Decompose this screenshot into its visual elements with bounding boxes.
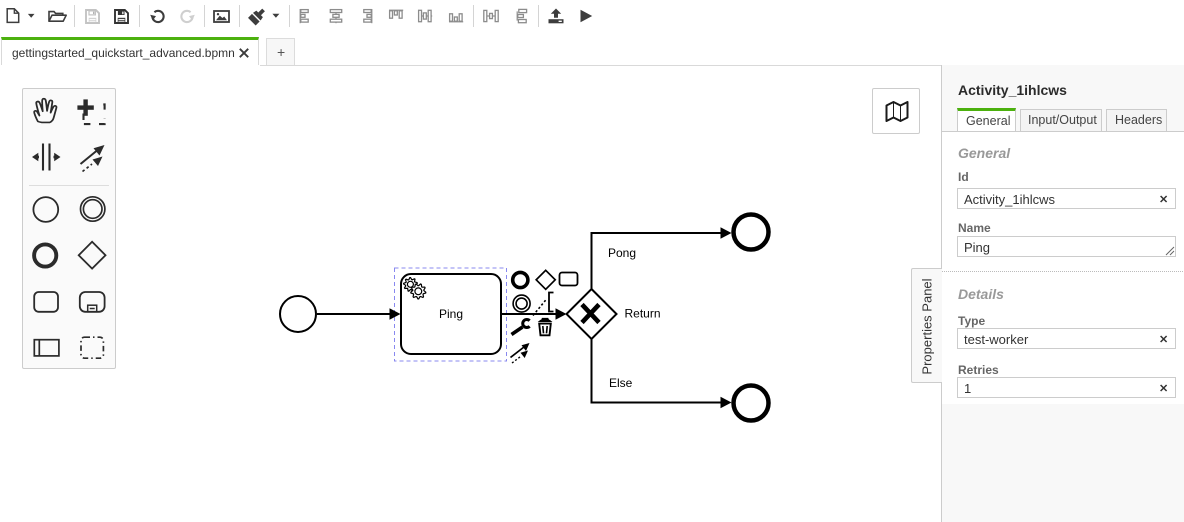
label Name	[958, 221, 991, 235]
toolbar separators	[74, 5, 75, 27]
new file button	[6, 8, 36, 24]
align left button	[294, 4, 318, 28]
context pad: append task	[560, 273, 578, 286]
start event	[280, 296, 316, 332]
active tab	[1, 37, 259, 65]
align center button	[324, 4, 348, 28]
input Retries	[957, 377, 1176, 398]
palette separator	[29, 185, 109, 187]
align bottom button	[444, 4, 468, 28]
white tab content	[942, 132, 1184, 404]
align top button	[384, 4, 408, 28]
label Type	[958, 314, 985, 328]
context pad: append end event	[513, 272, 528, 287]
context pad: trash (delete)	[538, 318, 553, 335]
redo button (disabled)	[179, 9, 195, 24]
selection box of task Ping	[395, 268, 507, 361]
context pad: connect tool	[511, 343, 530, 363]
palette: create intermediate/boundary event	[81, 197, 105, 221]
context pad: append intermediate event	[513, 295, 530, 312]
save button (disabled)	[85, 9, 100, 24]
palette: create task	[34, 292, 58, 312]
tabbar bottom border right of active tab	[260, 65, 941, 66]
palette: hand tool	[34, 99, 56, 123]
minimap map icon	[885, 100, 909, 123]
group header: Details	[958, 286, 1004, 302]
export image button	[213, 10, 230, 23]
panel header: element id	[958, 82, 1067, 98]
svg-text:Return: Return	[625, 307, 661, 321]
tab row bottom border	[942, 131, 1184, 132]
textarea Name	[957, 236, 1176, 257]
palette: create end event	[34, 244, 56, 266]
end event Pong	[734, 215, 769, 250]
label Id	[958, 170, 969, 184]
element colors (brush) button	[247, 6, 281, 26]
context pad: wrench (change type)	[512, 320, 530, 335]
palette: create pool/participant	[34, 340, 59, 356]
svg-text:Ping: Ping	[439, 307, 463, 321]
palette: space tool	[32, 144, 61, 171]
group header: General	[958, 145, 1010, 161]
palette: create group	[81, 337, 103, 358]
svg-text:Pong: Pong	[608, 246, 636, 260]
sequence flow: start to task	[317, 308, 401, 319]
start instance (play) button	[579, 9, 594, 23]
label Retries	[958, 363, 999, 377]
palette: global connect tool	[81, 145, 105, 172]
input Type	[957, 328, 1176, 349]
distribute vertical button	[509, 4, 533, 28]
sequence flow: task to gateway	[501, 308, 567, 319]
deploy button	[547, 8, 565, 25]
dotted group divider	[942, 271, 1184, 272]
palette: create gateway	[79, 242, 106, 269]
properties panel toggle tab	[911, 268, 942, 383]
context pad: text annotation	[533, 293, 554, 316]
palette: lasso tool	[77, 99, 104, 124]
svg-text:Else: Else	[609, 376, 633, 390]
sequence flow: gateway to Pong end	[592, 227, 732, 289]
panel tabs	[957, 108, 1016, 131]
undo button	[150, 9, 166, 24]
plus tab	[266, 38, 295, 65]
open file button	[48, 10, 68, 22]
end event Else	[734, 386, 769, 421]
context pad: append gateway	[536, 270, 555, 289]
align right button	[354, 4, 378, 28]
service task marker (gears) on task	[404, 278, 426, 299]
gateway Return (exclusive)	[567, 289, 661, 339]
palette: create expanded subprocess	[80, 292, 105, 312]
save-as button	[114, 9, 129, 24]
close X	[238, 47, 250, 59]
palette: create start event	[33, 197, 58, 222]
input Id	[957, 188, 1176, 209]
task Ping	[401, 274, 501, 354]
align middle button	[413, 4, 437, 28]
sequence flow: gateway to Else end	[592, 339, 732, 408]
distribute horizontal button	[479, 4, 503, 28]
